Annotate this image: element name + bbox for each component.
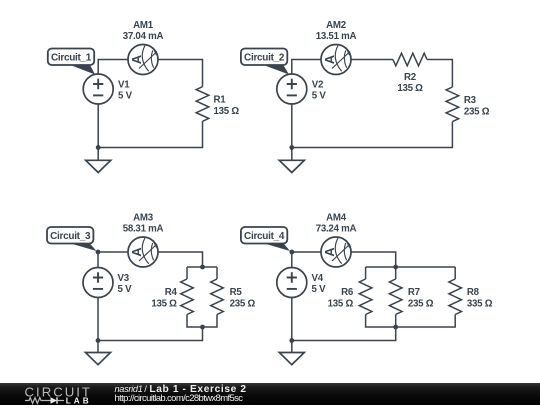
- wire: [454, 267, 456, 279]
- junction: [393, 325, 398, 330]
- wire: [351, 252, 396, 267]
- junction: [96, 338, 101, 343]
- voltage source V2: [277, 74, 307, 104]
- voltage source V3: [83, 268, 113, 298]
- svg-text:R8: R8: [467, 287, 480, 298]
- ground: [279, 148, 304, 173]
- wire: [365, 267, 367, 279]
- junction: [96, 250, 101, 255]
- svg-text:Circuit_3: Circuit_3: [50, 231, 91, 242]
- wire: [97, 298, 99, 341]
- wire: [97, 104, 99, 148]
- svg-text:335 Ω: 335 Ω: [467, 298, 493, 309]
- svg-text:Circuit_4: Circuit_4: [244, 231, 285, 242]
- svg-text:235 Ω: 235 Ω: [464, 106, 490, 117]
- wire: [98, 327, 203, 341]
- svg-text:235 Ω: 235 Ω: [408, 298, 434, 309]
- svg-text:http://circuitlab.com/c28btwx8: http://circuitlab.com/c28btwx8mf5sc: [115, 393, 244, 404]
- resistor R8: [449, 279, 462, 315]
- svg-text:R4: R4: [165, 287, 178, 298]
- svg-text:R7: R7: [408, 287, 420, 298]
- junction: [289, 338, 294, 343]
- svg-text:V2: V2: [312, 80, 323, 91]
- svg-text:AM4: AM4: [326, 213, 347, 224]
- svg-text:R3: R3: [464, 95, 477, 106]
- svg-text:135 Ω: 135 Ω: [328, 298, 354, 309]
- CircuitLab logo: [25, 384, 92, 405]
- svg-text:R2: R2: [404, 72, 416, 83]
- wire: [187, 315, 217, 328]
- node label Circuit_3 (callout): [47, 227, 97, 251]
- wire: [291, 252, 293, 268]
- resistor R6: [359, 279, 372, 315]
- svg-text:135 Ω: 135 Ω: [151, 298, 177, 309]
- wire: [292, 60, 321, 75]
- wire: [292, 327, 396, 341]
- svg-text:Circuit_1: Circuit_1: [51, 53, 92, 64]
- svg-text:58.31 mA: 58.31 mA: [123, 224, 164, 235]
- wire: [395, 315, 397, 328]
- wire: [158, 60, 203, 87]
- svg-text:5 V: 5 V: [312, 91, 327, 102]
- svg-text:R1: R1: [214, 95, 227, 106]
- svg-text:13.51 mA: 13.51 mA: [316, 31, 357, 42]
- svg-text:AM2: AM2: [326, 20, 346, 31]
- wire: [366, 266, 456, 268]
- wire: [291, 104, 293, 148]
- resistor R1: [196, 87, 209, 122]
- svg-text:5 V: 5 V: [118, 284, 133, 295]
- voltage source V1: [83, 74, 113, 104]
- resistor R5: [211, 279, 224, 315]
- junction: [96, 145, 101, 150]
- junction: [289, 145, 294, 150]
- svg-text:R5: R5: [230, 287, 243, 298]
- ammeter AM3: [128, 237, 158, 267]
- ground: [86, 341, 111, 365]
- svg-text:235 Ω: 235 Ω: [230, 298, 256, 309]
- svg-text:135 Ω: 135 Ω: [397, 83, 423, 94]
- svg-text:Circuit_2: Circuit_2: [244, 53, 285, 64]
- wire: [351, 59, 393, 61]
- svg-text:5 V: 5 V: [118, 91, 133, 102]
- svg-text:V4: V4: [312, 273, 324, 284]
- junction: [393, 265, 398, 270]
- svg-text:73.24 mA: 73.24 mA: [316, 224, 357, 235]
- resistor R2: [393, 53, 427, 66]
- node label Circuit_2 (callout): [241, 49, 289, 75]
- svg-text:AM3: AM3: [133, 213, 154, 224]
- wire: [98, 121, 202, 147]
- svg-text:AM1: AM1: [133, 20, 154, 31]
- junction: [200, 325, 205, 330]
- wire: [427, 60, 452, 88]
- wire: [291, 298, 293, 341]
- wire: [187, 266, 217, 268]
- svg-text:V3: V3: [118, 273, 130, 284]
- ground: [86, 148, 111, 173]
- wire: [216, 267, 218, 279]
- resistor R7: [389, 279, 402, 315]
- resistor R3: [446, 87, 459, 122]
- wire: [366, 315, 456, 328]
- wire: [395, 267, 397, 279]
- ammeter AM4: [321, 237, 351, 267]
- ammeter AM2: [321, 45, 351, 75]
- node label Circuit_1 (callout): [48, 49, 95, 75]
- svg-text:135 Ω: 135 Ω: [214, 106, 240, 117]
- wire: [98, 60, 128, 75]
- wire: [158, 252, 203, 267]
- wire: [292, 251, 321, 253]
- ground: [279, 341, 304, 365]
- resistor R4: [181, 279, 194, 315]
- wire: [98, 251, 128, 253]
- svg-text:LAB: LAB: [66, 396, 92, 405]
- ammeter AM1: [128, 45, 158, 75]
- svg-text:R6: R6: [341, 287, 354, 298]
- svg-text:V1: V1: [118, 80, 130, 91]
- wire: [186, 267, 188, 279]
- node label Circuit_4 (callout): [241, 227, 290, 251]
- junction: [200, 265, 205, 270]
- voltage source V4: [277, 268, 307, 298]
- junction: [289, 250, 294, 255]
- svg-text:5 V: 5 V: [312, 284, 327, 295]
- wire: [292, 122, 453, 148]
- wire: [97, 252, 99, 268]
- svg-text:37.04 mA: 37.04 mA: [123, 31, 164, 42]
